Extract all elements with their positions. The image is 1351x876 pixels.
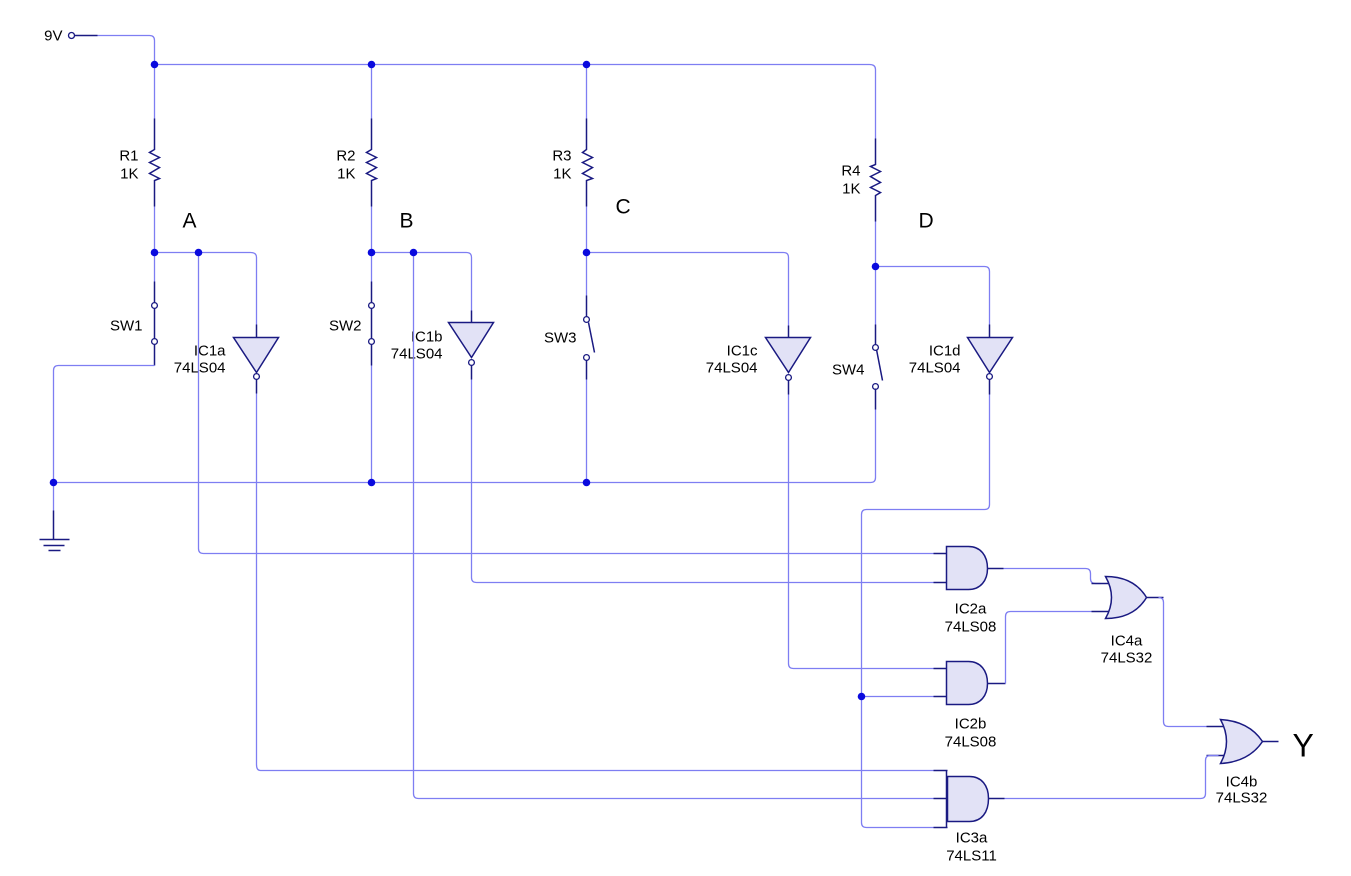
wire node B to IC1b input — [372, 253, 472, 311]
and-gate IC2a — [934, 547, 1004, 636]
svg-text:1K: 1K — [120, 166, 138, 183]
svg-text:74LS11: 74LS11 — [946, 848, 997, 865]
inverter IC1a — [174, 325, 279, 394]
wire R2 to node B — [371, 207, 373, 253]
node label B — [400, 210, 414, 233]
svg-text:74LS32: 74LS32 — [1216, 790, 1268, 807]
wire node D to IC1d input — [876, 267, 990, 325]
wire ground rail — [54, 410, 876, 483]
switch SW2 — [329, 253, 374, 366]
node label C — [616, 196, 631, 219]
wire rail to R1 — [154, 65, 156, 119]
svg-text:SW1: SW1 — [110, 318, 143, 335]
wire node A to IC2a input A — [199, 253, 934, 554]
wire rail to ground — [53, 483, 55, 511]
switch SW3 — [544, 253, 595, 380]
svg-text:SW2: SW2 — [329, 318, 362, 335]
wire rail to R2 — [371, 65, 373, 119]
junction rail-R3 — [583, 61, 591, 69]
wire rail to R3 — [586, 65, 588, 119]
ground rail junction 2 — [368, 479, 376, 487]
resistor R3 — [552, 119, 592, 207]
wire IC1d output to junction — [862, 395, 990, 697]
switch SW1 — [110, 253, 157, 366]
wire R3 to node C — [586, 207, 588, 253]
wire IC1c output to IC2b input A — [789, 395, 934, 669]
junction rail-R2 — [368, 61, 376, 69]
wire IC1b output to IC2a input B — [472, 380, 934, 583]
svg-text:74LS08: 74LS08 — [945, 734, 997, 751]
wire junction to IC2b input B — [862, 696, 934, 698]
resistor R4 — [841, 139, 880, 222]
svg-text:IC2a: IC2a — [955, 601, 987, 618]
resistor R2 — [336, 119, 376, 207]
svg-text:A: A — [183, 210, 197, 233]
svg-text:SW4: SW4 — [832, 362, 865, 379]
svg-text:IC4a: IC4a — [1111, 633, 1143, 650]
svg-text:R3: R3 — [552, 148, 571, 165]
svg-text:74LS08: 74LS08 — [945, 619, 997, 636]
svg-text:R1: R1 — [119, 148, 138, 165]
node B junction — [368, 249, 376, 257]
and-gate IC3a — [934, 771, 1005, 865]
svg-text:74LS04: 74LS04 — [391, 346, 443, 363]
wire node C to IC1c input — [587, 253, 789, 326]
wire SW2 to ground rail — [371, 366, 373, 483]
svg-text:74LS32: 74LS32 — [1101, 650, 1153, 667]
and-gate IC2b — [934, 662, 1006, 751]
node C junction — [583, 249, 591, 257]
resistor R1 — [119, 119, 159, 207]
output label Y — [1293, 728, 1314, 764]
wire top power rail — [155, 65, 876, 139]
svg-text:IC1d: IC1d — [929, 343, 961, 360]
or-gate IC4a — [1092, 577, 1164, 667]
wire junction to IC3a input C — [862, 697, 934, 828]
power terminal 9V — [44, 28, 97, 45]
svg-text:C: C — [616, 196, 631, 219]
ground — [40, 511, 70, 551]
svg-text:IC2b: IC2b — [955, 716, 987, 733]
ground rail junction 1 — [50, 479, 58, 487]
node label A — [183, 210, 197, 233]
wire R4 to node D — [875, 222, 877, 267]
wire IC2a output to IC4a input A — [1004, 569, 1101, 584]
node label D — [919, 210, 934, 233]
svg-text:B: B — [400, 210, 414, 233]
svg-text:R2: R2 — [336, 148, 355, 165]
ground rail junction 3 — [583, 479, 591, 487]
node D junction — [872, 263, 880, 271]
svg-text:74LS04: 74LS04 — [174, 360, 226, 377]
wire 9V to top rail — [98, 36, 155, 65]
inverter IC1d — [909, 325, 1013, 395]
svg-text:Y: Y — [1293, 728, 1314, 764]
svg-text:1K: 1K — [553, 166, 571, 183]
svg-text:1K: 1K — [337, 166, 355, 183]
wire node B to IC3a input B — [414, 253, 934, 799]
svg-text:IC1b: IC1b — [411, 329, 443, 346]
switch SW4 — [832, 267, 883, 410]
wire IC3a output to IC4b input B — [1005, 756, 1219, 799]
wire IC1a output to IC3a input A — [257, 394, 934, 771]
svg-text:9V: 9V — [44, 28, 62, 45]
wire SW3 to ground rail — [586, 380, 588, 483]
svg-text:IC3a: IC3a — [956, 830, 988, 847]
svg-text:74LS04: 74LS04 — [909, 360, 961, 377]
svg-text:74LS04: 74LS04 — [706, 360, 758, 377]
svg-text:SW3: SW3 — [544, 330, 577, 347]
node A junction — [151, 249, 159, 257]
svg-text:1K: 1K — [842, 181, 860, 198]
wire node A to IC1a input — [155, 253, 257, 325]
svg-text:IC4b: IC4b — [1226, 774, 1258, 791]
svg-text:IC1c: IC1c — [727, 343, 758, 360]
node A junction 2 — [195, 249, 203, 257]
or-gate IC4b — [1207, 720, 1279, 807]
inverter IC1b — [391, 311, 494, 380]
wire IC4a output to IC4b input A — [1159, 598, 1207, 727]
wire IC2b output to IC4a input B — [1006, 612, 1092, 684]
svg-text:D: D — [919, 210, 934, 233]
node B junction 2 — [410, 249, 418, 257]
junction IC1d net — [858, 693, 866, 701]
wire R1 to node A — [154, 207, 156, 253]
svg-text:R4: R4 — [841, 163, 860, 180]
wire SW1 to ground rail — [54, 366, 155, 483]
inverter IC1c — [706, 326, 811, 395]
junction rail-R1 — [151, 61, 159, 69]
